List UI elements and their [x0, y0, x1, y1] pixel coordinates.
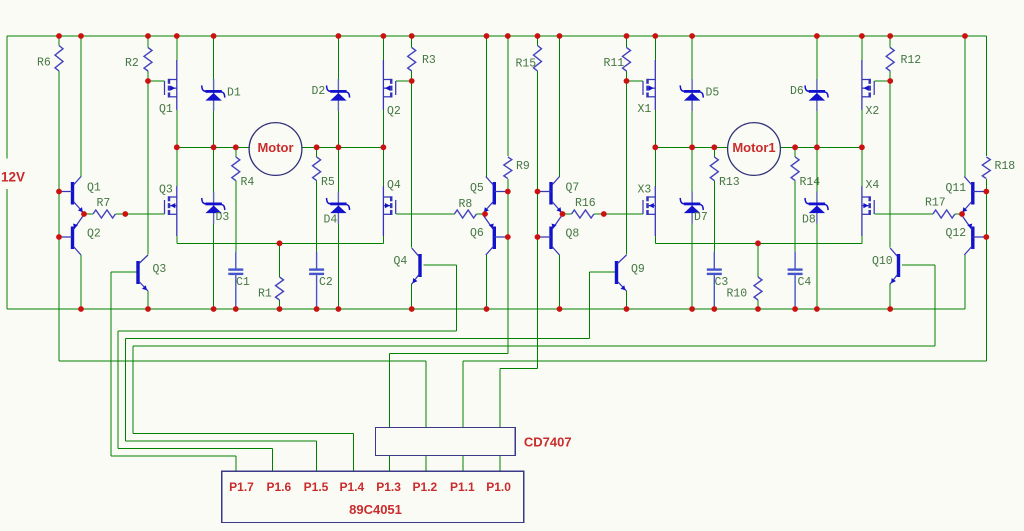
mosfet X1: [643, 60, 655, 110]
label R18: [995, 160, 1016, 173]
resistor R2: [144, 48, 152, 72]
svg-text:R15: R15: [516, 58, 537, 71]
wire left FET column: [654, 36, 656, 243]
svg-text:P1.0: P1.0: [486, 480, 511, 494]
diode D8: [805, 192, 828, 224]
svg-text:R1: R1: [258, 288, 272, 301]
label Q7: [566, 182, 580, 195]
mosfet Q1: [165, 60, 177, 110]
svg-text:R4: R4: [241, 176, 255, 189]
svg-text:C1: C1: [236, 276, 250, 289]
wire snubber column R4/C1: [235, 147, 237, 251]
label X1: [638, 103, 652, 116]
svg-text:D3: D3: [216, 211, 230, 224]
label Q6: [470, 227, 484, 240]
svg-text:P1.2: P1.2: [413, 480, 438, 494]
svg-text:Q1: Q1: [159, 103, 173, 116]
resistor R10: [754, 277, 762, 300]
diode D2: [327, 79, 350, 111]
svg-text:R5: R5: [321, 176, 335, 189]
label D8: [802, 214, 816, 227]
resistor R4: [232, 157, 240, 181]
resistor R7: [93, 210, 115, 218]
svg-text:CD7407: CD7407: [524, 435, 572, 450]
wire right FET column: [861, 36, 863, 243]
resistor R12: [886, 48, 894, 72]
svg-text:R7: R7: [97, 197, 111, 210]
buffer U1 CD7407 box: [376, 428, 516, 456]
svg-text:89C4051: 89C4051: [349, 502, 402, 517]
resistor R11: [623, 48, 631, 72]
svg-text:Q6: Q6: [470, 227, 484, 240]
wire snubber column R14/C4: [794, 147, 796, 251]
wire driver collector-emitter column Q5/Q6: [486, 36, 488, 309]
wire sense resistor column R10: [757, 243, 759, 309]
wire base column Q3 to port bus: [110, 272, 112, 456]
resistor R9: [504, 157, 512, 179]
label C1: [236, 276, 250, 289]
svg-text:X2: X2: [866, 105, 880, 118]
svg-text:P1.4: P1.4: [340, 480, 365, 494]
diode D1: [202, 79, 225, 111]
wire base column Q10: [934, 265, 936, 346]
svg-text:Q4: Q4: [387, 179, 401, 192]
label 12V: [1, 170, 25, 185]
label R11: [604, 57, 625, 70]
wire lower gate row: [563, 213, 964, 215]
diode D6: [805, 79, 828, 111]
resistor R1: [276, 277, 284, 300]
svg-text:R11: R11: [604, 57, 625, 70]
label D6: [790, 85, 804, 98]
diode D5: [680, 79, 703, 111]
wire diode column D1/D3: [213, 36, 215, 309]
resistor R13: [710, 157, 718, 181]
wire gate drive column R11: [626, 36, 628, 309]
wire ground bottom rail: [7, 308, 965, 310]
wire diode column D2/D4: [337, 36, 339, 309]
diode D7: [680, 192, 703, 224]
svg-text:Motor: Motor: [257, 140, 293, 155]
mosfet X2: [862, 60, 874, 110]
label Q4: [387, 179, 401, 192]
label 89C4051: [349, 502, 402, 517]
resistor R14: [791, 157, 799, 181]
capacitor C1: [228, 252, 243, 308]
wire left FET column: [176, 36, 178, 243]
pin label P1.2: [413, 480, 438, 494]
wire driver collector-emitter column Q1/Q2: [80, 36, 82, 309]
label Q2: [87, 228, 101, 241]
svg-text:Q3: Q3: [159, 184, 173, 197]
svg-text:R8: R8: [459, 198, 473, 211]
wire CD7407 input pins: [390, 455, 501, 471]
wire snubber column R13/C3: [713, 147, 715, 251]
wire bias column R6: [58, 36, 60, 361]
svg-text:X4: X4: [866, 179, 880, 192]
svg-text:R16: R16: [575, 197, 596, 210]
label Q8: [566, 228, 580, 241]
capacitor C2: [309, 252, 324, 308]
label R8: [459, 198, 473, 211]
capacitor C3: [707, 252, 722, 308]
pin label P1.0: [486, 480, 511, 494]
junction dots +12V rail: [56, 33, 968, 39]
mosfet Q3: [165, 186, 177, 236]
wire base column Q9 to port bus: [588, 272, 590, 339]
wire P1.1 buffered to Q11/Q12 bias: [463, 361, 986, 428]
label C2: [319, 276, 333, 289]
wire gate drive column R12: [889, 36, 891, 309]
wire bias column R15: [537, 36, 539, 369]
wire bridge source row: [177, 242, 384, 244]
mosfet Q2: [383, 60, 395, 110]
svg-text:C2: C2: [319, 276, 333, 289]
svg-text:D6: D6: [790, 85, 804, 98]
wire P1.3 buffered to Q5/Q6 bias: [390, 354, 508, 428]
label R7: [97, 197, 111, 210]
label R4: [241, 176, 255, 189]
wire right FET column: [382, 36, 384, 243]
transistor Q4: [412, 248, 420, 284]
svg-text:R13: R13: [719, 176, 740, 189]
wire bias column R18: [985, 36, 987, 361]
diode D3: [202, 192, 225, 224]
junction dots motor rows: [174, 144, 865, 150]
svg-text:R17: R17: [925, 197, 946, 210]
label Q10: [872, 255, 893, 268]
svg-text:Q2: Q2: [387, 105, 401, 118]
resistor R18: [982, 157, 990, 179]
junction dots driver bases: [56, 189, 989, 240]
svg-text:Q11: Q11: [946, 182, 967, 195]
label Q3: [159, 184, 173, 197]
label R13: [719, 176, 740, 189]
label D5: [706, 87, 720, 100]
svg-text:D2: D2: [312, 85, 326, 98]
wire P1.6 to Q4 base: [118, 331, 456, 471]
svg-text:D8: D8: [802, 214, 816, 227]
svg-text:D1: D1: [227, 87, 241, 100]
svg-text:R6: R6: [37, 57, 51, 70]
diode D4: [327, 192, 350, 224]
svg-text:R14: R14: [800, 176, 821, 189]
svg-text:R12: R12: [901, 54, 922, 67]
wire upper gate stubs: [627, 80, 891, 82]
capacitor C4: [788, 252, 803, 308]
svg-text:P1.3: P1.3: [376, 480, 401, 494]
svg-text:Q4: Q4: [394, 255, 408, 268]
label Q3: [153, 263, 167, 276]
svg-text:Q3: Q3: [153, 263, 167, 276]
wire base column Q4: [456, 265, 458, 331]
label Q5: [470, 182, 484, 195]
svg-text:12V: 12V: [1, 170, 25, 185]
svg-text:P1.7: P1.7: [229, 480, 254, 494]
resistor R16: [572, 210, 594, 218]
junction dots gate nodes: [145, 78, 893, 84]
svg-text:R18: R18: [995, 160, 1016, 173]
label R17: [925, 197, 946, 210]
resistor R17: [933, 210, 955, 218]
junction dots sense nodes: [277, 240, 761, 246]
svg-text:Motor1: Motor1: [732, 140, 775, 155]
resistor R8: [454, 210, 476, 218]
wire motor row: [177, 146, 384, 148]
mosfet Q4: [383, 186, 395, 236]
wire P1.4 to Q10 base: [133, 346, 935, 471]
label Q12: [946, 227, 967, 240]
label R16: [575, 197, 596, 210]
pin label P1.1: [450, 480, 475, 494]
wire P1.7 to Q3 base: [111, 456, 236, 471]
label R14: [800, 176, 821, 189]
mosfet X4: [862, 186, 874, 236]
motor Motor1: [728, 123, 781, 176]
label R10: [727, 288, 748, 301]
svg-text:R10: R10: [727, 288, 748, 301]
wire lower gate row: [84, 213, 485, 215]
label R15: [516, 58, 537, 71]
svg-text:D7: D7: [694, 211, 708, 224]
svg-text:P1.1: P1.1: [450, 480, 475, 494]
svg-text:Q1: Q1: [87, 182, 101, 195]
wire 12V left supply: [6, 36, 8, 309]
wire bridge source row: [655, 242, 862, 244]
label R12: [901, 54, 922, 67]
svg-text:Q7: Q7: [566, 182, 580, 195]
label Q1: [87, 182, 101, 195]
label X2: [866, 105, 880, 118]
label Q9: [631, 263, 645, 276]
svg-text:Q10: Q10: [872, 255, 893, 268]
label R5: [321, 176, 335, 189]
svg-text:X1: X1: [638, 103, 652, 116]
label X4: [866, 179, 880, 192]
label D2: [312, 85, 326, 98]
svg-text:Q2: Q2: [87, 228, 101, 241]
label C3: [715, 276, 729, 289]
wire gate drive column R2: [147, 36, 149, 309]
junction dots ground rail: [78, 306, 893, 312]
svg-text:Q12: Q12: [946, 227, 967, 240]
resistor R6: [55, 46, 63, 72]
wire driver base stubs: [589, 265, 935, 272]
label D4: [324, 214, 338, 227]
resistor R3: [408, 48, 416, 72]
pin label P1.7: [229, 480, 254, 494]
motor Motor: [249, 123, 302, 176]
label Q11: [946, 182, 967, 195]
pin label P1.6: [266, 480, 291, 494]
label C4: [798, 276, 812, 289]
wire +12V top rail: [7, 35, 986, 37]
svg-text:C4: C4: [798, 276, 812, 289]
wire P1.2 buffered to Q1/Q2 bias: [59, 361, 426, 428]
wire bias column R9: [507, 36, 509, 354]
wire diode column D6/D8: [816, 36, 818, 309]
wire gate drive column R3: [411, 36, 413, 309]
label R6: [37, 57, 51, 70]
svg-text:P1.6: P1.6: [266, 480, 291, 494]
svg-text:P1.5: P1.5: [304, 480, 329, 494]
svg-text:X3: X3: [638, 184, 652, 197]
label R1: [258, 288, 272, 301]
pin label P1.4: [340, 480, 365, 494]
label Q4: [394, 255, 408, 268]
wire P1.0 buffered to Q7/Q8 bias: [500, 369, 537, 428]
wire upper gate stubs: [148, 80, 412, 82]
label Q2: [387, 105, 401, 118]
label D1: [227, 87, 241, 100]
svg-text:R2: R2: [125, 57, 139, 70]
label Q1: [159, 103, 173, 116]
pin label P1.5: [304, 480, 329, 494]
transistor Q3: [138, 255, 148, 291]
wire driver collector-emitter column Q7/Q8: [559, 36, 561, 309]
label CD7407: [524, 435, 572, 450]
svg-text:Q5: Q5: [470, 182, 484, 195]
label X3: [638, 184, 652, 197]
transistor pair Q11/Q12: [961, 177, 986, 256]
transistor Q10: [890, 248, 898, 284]
pin label P1.3: [376, 480, 401, 494]
transistor Q9: [617, 255, 627, 291]
svg-text:D4: D4: [324, 214, 338, 227]
wire P1.5 to Q9 base: [126, 339, 590, 472]
transistor pair Q1/Q2: [59, 177, 84, 256]
label R3: [422, 54, 436, 67]
transistor pair Q7/Q8: [538, 177, 563, 256]
svg-text:R3: R3: [422, 54, 436, 67]
label D7: [694, 211, 708, 224]
label R2: [125, 57, 139, 70]
junction dots lower gate rows: [81, 211, 965, 217]
wire driver collector-emitter column Q11/Q12: [964, 36, 966, 309]
wire snubber column R5/C2: [316, 147, 318, 251]
wire diode column D5/D7: [691, 36, 693, 309]
svg-text:R9: R9: [516, 160, 530, 173]
svg-text:Q9: Q9: [631, 263, 645, 276]
wire driver base stubs: [111, 265, 457, 272]
svg-text:D5: D5: [706, 87, 720, 100]
mosfet X3: [643, 186, 655, 236]
resistor R15: [534, 46, 542, 72]
svg-text:Q8: Q8: [566, 228, 580, 241]
mcu U2 89C4051 box: [222, 471, 524, 522]
wire motor row: [655, 146, 862, 148]
label D3: [216, 211, 230, 224]
resistor R5: [313, 157, 321, 181]
label R9: [516, 160, 530, 173]
wire sense resistor column R1: [279, 243, 281, 309]
transistor pair Q5/Q6: [483, 177, 508, 256]
